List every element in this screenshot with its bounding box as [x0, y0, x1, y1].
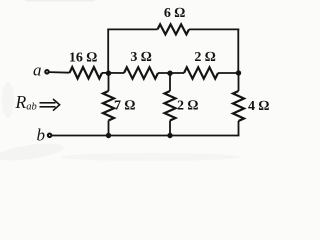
junction bottom middle	[167, 133, 172, 138]
node B junction	[167, 71, 172, 76]
wire bottom	[52, 135, 240, 137]
wire top loop right vertical	[237, 29, 239, 74]
svg-text:R: R	[15, 92, 27, 112]
wire node A down	[108, 73, 110, 91]
wire R7 to bottom	[108, 121, 110, 136]
svg-text:a: a	[33, 61, 42, 80]
wire node B down	[169, 73, 171, 91]
svg-text:b: b	[37, 126, 46, 145]
resistor R2bot 2ohm	[165, 91, 176, 121]
svg-text:2 Ω: 2 Ω	[194, 50, 216, 65]
svg-text:16 Ω: 16 Ω	[69, 50, 98, 65]
wire node C down	[238, 73, 240, 91]
resistor R16 16ohm	[70, 67, 103, 78]
node A junction	[106, 71, 111, 76]
wire R2bot to bottom	[169, 121, 171, 136]
wire top loop left horizontal	[107, 28, 157, 30]
resistor R4 4ohm	[233, 91, 244, 121]
arrow Rab implies	[40, 99, 60, 111]
wire R4 to bottom corner	[238, 121, 240, 136]
wire R3 to R2top	[158, 72, 184, 74]
wire R2top to node C	[218, 72, 239, 74]
svg-text:7 Ω: 7 Ω	[114, 99, 136, 114]
node C junction	[236, 70, 241, 75]
resistor R2top 2ohm	[184, 67, 218, 78]
svg-text:4 Ω: 4 Ω	[248, 99, 270, 114]
wire top loop right horizontal	[189, 28, 239, 30]
resistor R3 3ohm	[124, 67, 158, 78]
wire a to R16	[49, 71, 69, 74]
terminal a	[45, 70, 49, 74]
svg-text:6 Ω: 6 Ω	[164, 6, 186, 21]
junction bottom left	[106, 133, 111, 138]
resistor R6 6ohm	[158, 24, 190, 34]
svg-text:2 Ω: 2 Ω	[177, 99, 199, 114]
wire top loop left vertical	[107, 29, 109, 73]
svg-text:3 Ω: 3 Ω	[130, 50, 152, 65]
terminal b	[48, 134, 52, 138]
resistor R7 7ohm	[103, 91, 114, 121]
svg-text:ab: ab	[26, 101, 37, 112]
wire R16 to R3	[102, 72, 124, 74]
